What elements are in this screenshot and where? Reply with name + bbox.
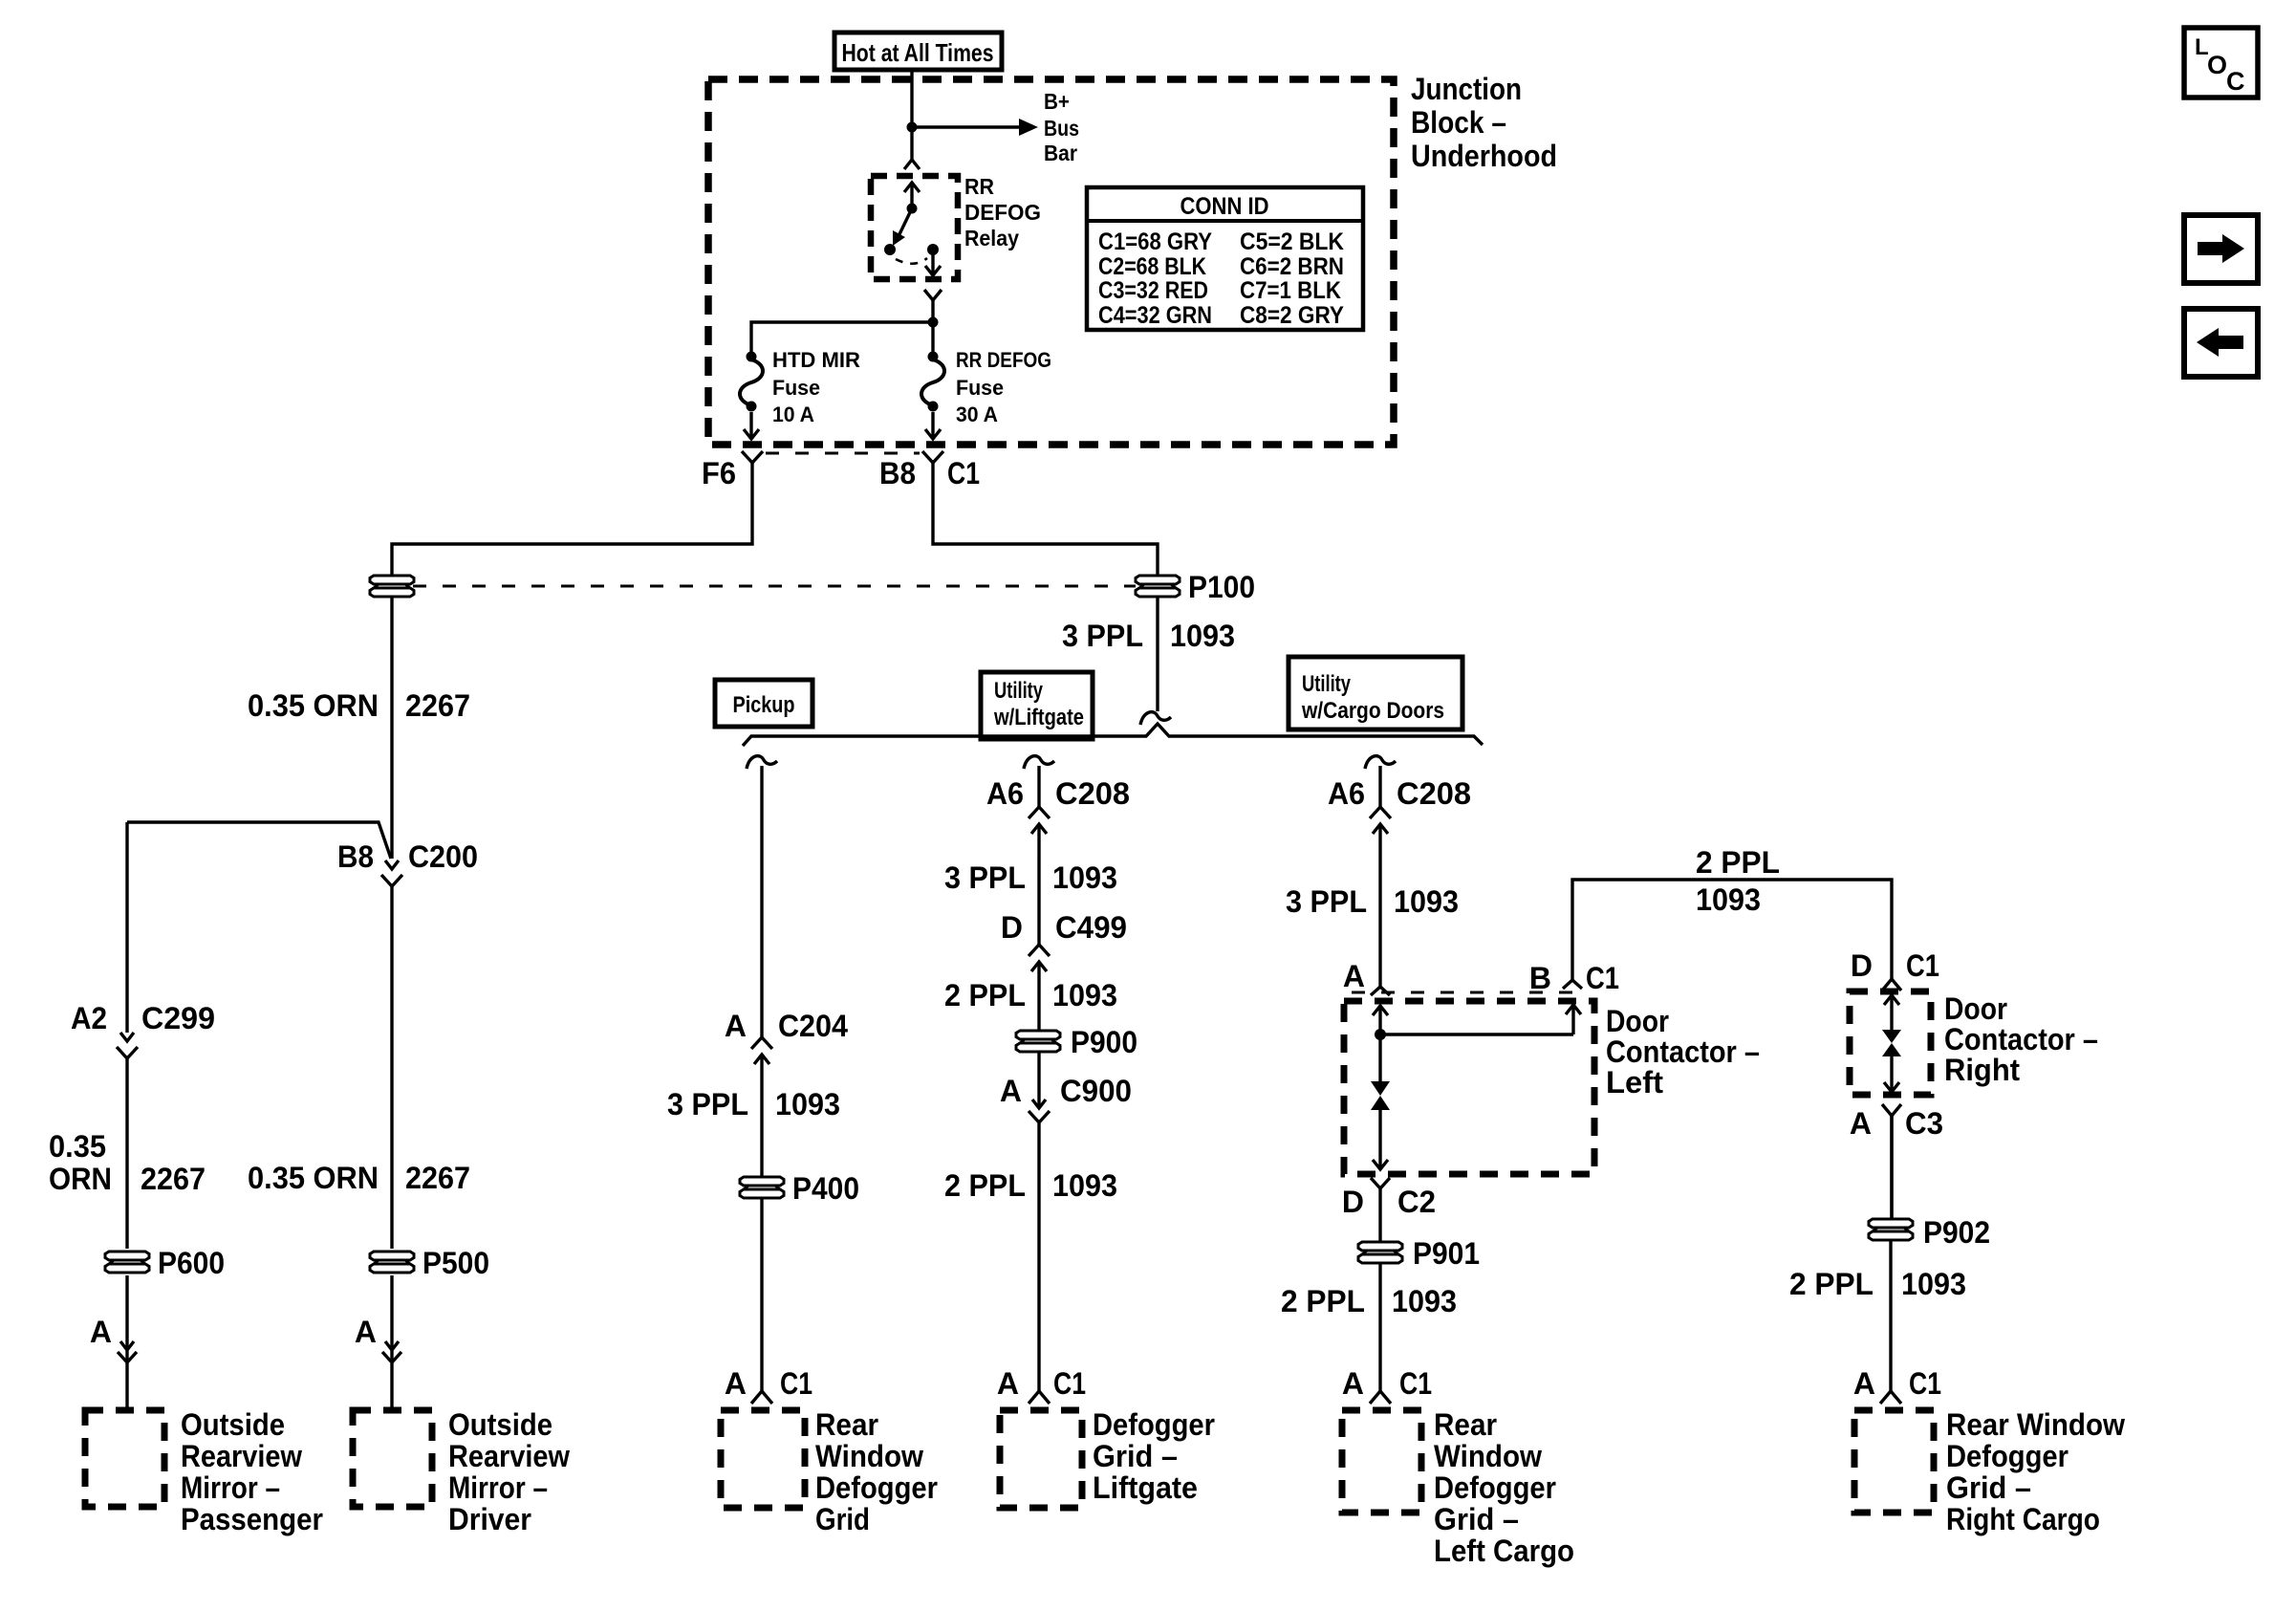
label 2 PPL 1093 right cargo	[1789, 1267, 1966, 1301]
wire passenger tee	[127, 822, 391, 859]
door contactor left dashed box	[1344, 1001, 1594, 1174]
label A2	[71, 1001, 107, 1035]
grommet P500	[370, 1252, 414, 1273]
connector F6 chevron	[742, 451, 763, 463]
icon box arrow right	[2184, 215, 2258, 283]
label RR DEFOG Relay	[964, 174, 1041, 250]
svg-text:Grid –: Grid –	[1093, 1439, 1178, 1473]
arrow down from RR DEFOG fuse	[925, 412, 941, 439]
label B8 at C200	[337, 839, 374, 874]
svg-text:C3: C3	[1905, 1106, 1943, 1141]
label A contactor left	[1343, 959, 1365, 993]
svg-text:C499: C499	[1055, 910, 1127, 945]
svg-text:1093: 1093	[1052, 1168, 1117, 1203]
svg-text:1093: 1093	[1696, 882, 1761, 917]
svg-text:Rear: Rear	[815, 1407, 878, 1442]
connector B8/C200 arrow and chevron	[381, 860, 402, 886]
label Door Contactor - Left	[1606, 1004, 1760, 1099]
label Rear Window Defogger Grid - Left Cargo	[1434, 1407, 1574, 1568]
svg-text:A: A	[1850, 1106, 1872, 1141]
label Rear Window Defogger Grid - Right Cargo	[1946, 1407, 2125, 1536]
connector D/C1 contactor right	[1882, 979, 1901, 991]
svg-text:2 PPL: 2 PPL	[1696, 845, 1780, 880]
svg-text:Grid –: Grid –	[1434, 1502, 1519, 1536]
B+ Bus Bar arrow	[912, 119, 1038, 136]
grommet P400	[740, 1177, 784, 1198]
svg-text:C204: C204	[778, 1009, 848, 1043]
svg-text:Contactor –: Contactor –	[1606, 1034, 1760, 1069]
label A bottom liftgate	[997, 1366, 1019, 1401]
svg-text:2 PPL: 2 PPL	[944, 978, 1026, 1012]
svg-text:C: C	[2226, 67, 2245, 96]
svg-text:C200: C200	[408, 839, 478, 874]
label B+ Bus Bar	[1044, 89, 1079, 165]
label C499	[1055, 910, 1127, 945]
label 3 PPL 1093 cargo	[1286, 884, 1459, 919]
svg-text:A: A	[90, 1315, 112, 1349]
contactor left arrow up to B terminal	[1566, 1005, 1581, 1034]
connector A/C900	[1029, 1090, 1050, 1122]
svg-text:C8=2 GRY: C8=2 GRY	[1240, 302, 1344, 329]
contactor right input arrow	[1884, 995, 1899, 1031]
svg-text:C3=32 RED: C3=32 RED	[1098, 277, 1208, 304]
contactor left hourglass contact	[1371, 1034, 1390, 1152]
power label box: Hot at All Times	[834, 33, 1002, 70]
svg-text:P901: P901	[1413, 1236, 1480, 1271]
label P901	[1413, 1236, 1480, 1271]
label C1 top	[947, 456, 980, 490]
svg-text:B8: B8	[879, 456, 916, 490]
svg-text:1093: 1093	[1170, 619, 1235, 653]
svg-text:2 PPL: 2 PPL	[1281, 1284, 1365, 1318]
contactor left input arrow	[1373, 1006, 1388, 1034]
svg-text:Grid: Grid	[815, 1502, 870, 1536]
hook cargo branch	[1365, 756, 1396, 769]
svg-text:A: A	[1342, 1366, 1364, 1401]
label P100	[1188, 570, 1255, 604]
label P902	[1923, 1215, 1990, 1250]
relay switch: common arrow up	[904, 183, 920, 208]
svg-text:Hot at All Times: Hot at All Times	[842, 38, 994, 67]
label C200	[408, 839, 478, 874]
svg-text:Window: Window	[1434, 1439, 1542, 1473]
connector D/C2 below contactor left	[1371, 1178, 1390, 1242]
svg-text:C4=32 GRN: C4=32 GRN	[1098, 302, 1212, 329]
label 2 PPL 1093 left cargo	[1281, 1284, 1457, 1318]
svg-text:3 PPL: 3 PPL	[944, 860, 1026, 895]
grommet P600	[105, 1252, 149, 1273]
svg-text:C1: C1	[1399, 1366, 1432, 1401]
connector A driver mirror	[382, 1341, 401, 1362]
svg-text:Left: Left	[1606, 1065, 1663, 1099]
wire C299 to P600	[125, 1058, 128, 1249]
svg-text:C208: C208	[1055, 776, 1130, 811]
component box Defogger Grid - Liftgate	[1000, 1410, 1082, 1508]
svg-text:30 A: 30 A	[956, 403, 998, 426]
svg-text:Rear Window: Rear Window	[1946, 1407, 2125, 1442]
svg-text:D: D	[1001, 910, 1023, 945]
svg-text:1093: 1093	[1901, 1267, 1966, 1301]
label D contactor right	[1851, 948, 1873, 983]
label A bottom pickup	[725, 1366, 747, 1401]
svg-text:w/Cargo Doors: w/Cargo Doors	[1301, 698, 1444, 724]
icon box LOC	[2184, 28, 2258, 98]
svg-text:Door: Door	[1944, 991, 2007, 1026]
contactor left link wire to B	[1380, 1033, 1573, 1035]
label D at C499	[1001, 910, 1023, 945]
door contactor right dashed box	[1850, 991, 1931, 1095]
svg-text:Fuse: Fuse	[956, 376, 1004, 400]
svg-text:A: A	[355, 1315, 377, 1349]
svg-text:D: D	[1342, 1185, 1364, 1219]
svg-text:ORN: ORN	[49, 1162, 112, 1196]
svg-text:Outside: Outside	[181, 1407, 285, 1442]
svg-text:P100: P100	[1188, 570, 1255, 604]
label Rear Window Defogger Grid	[815, 1407, 938, 1536]
svg-text:A: A	[1853, 1366, 1875, 1401]
svg-text:B8: B8	[337, 839, 374, 874]
thin dashed connector line contactor left	[1352, 991, 1579, 994]
wire P902 to right cargo grid	[1889, 1241, 1892, 1392]
wire pickup down to C204	[760, 766, 763, 1037]
component box Rear Window Defogger Grid - Left Cargo	[1342, 1410, 1421, 1513]
svg-text:Utility: Utility	[1302, 671, 1351, 697]
wire liftgate to C208	[1037, 766, 1040, 807]
label C1 bottom right cargo	[1909, 1366, 1941, 1401]
label 0.35 ORN 2267 passenger	[49, 1129, 206, 1196]
grommet P901	[1358, 1242, 1402, 1263]
svg-text:Pickup: Pickup	[733, 692, 795, 718]
RR DEFOG relay dashed box	[871, 176, 958, 279]
hook pickup branch	[747, 756, 777, 769]
grommet P902	[1869, 1219, 1913, 1240]
svg-text:C1: C1	[1586, 961, 1619, 995]
label A at C204	[725, 1009, 747, 1043]
svg-text:Window: Window	[815, 1439, 923, 1473]
connector A/C3 below contactor right	[1882, 1104, 1901, 1219]
label C1 contactor right	[1906, 948, 1939, 983]
svg-text:P500: P500	[422, 1246, 489, 1280]
svg-text:Contactor –: Contactor –	[1944, 1022, 2098, 1056]
svg-text:3 PPL: 3 PPL	[1062, 619, 1143, 653]
label A6 cargo	[1328, 776, 1365, 811]
connector D/C499 chevrons	[1029, 945, 1050, 991]
wire P400 to defogger grid	[760, 1199, 763, 1392]
wire driver continues	[390, 822, 393, 859]
svg-text:Door: Door	[1606, 1004, 1669, 1038]
fuse HTD MIR 10A	[740, 352, 763, 412]
connector A/C1 liftgate	[1029, 1391, 1050, 1404]
svg-text:3 PPL: 3 PPL	[667, 1087, 748, 1121]
svg-text:2 PPL: 2 PPL	[1789, 1267, 1874, 1301]
label B contactor	[1529, 961, 1551, 995]
options brace	[743, 724, 1483, 746]
svg-text:Utility: Utility	[994, 678, 1043, 704]
wire C208 to C499	[1037, 853, 1040, 945]
label Defogger Grid - Liftgate	[1093, 1407, 1215, 1505]
CONN ID rows left	[1098, 229, 1212, 329]
CONN ID rows right	[1240, 229, 1344, 329]
contactor right output arrow	[1884, 1056, 1899, 1092]
label C900	[1060, 1074, 1132, 1108]
icon box arrow left	[2184, 309, 2258, 377]
wire C1 down-right to P100	[933, 463, 1158, 575]
svg-text:Defogger: Defogger	[1434, 1470, 1556, 1505]
hook at bottom of P100 wire	[1140, 712, 1171, 725]
svg-text:1093: 1093	[1052, 860, 1117, 895]
junction block dashed box	[708, 79, 1394, 445]
svg-text:RR: RR	[964, 174, 994, 199]
wire main down from left grommet	[390, 598, 393, 822]
svg-text:Fuse: Fuse	[772, 376, 820, 400]
contactor right hourglass contact	[1882, 1030, 1901, 1056]
svg-text:Rear: Rear	[1434, 1407, 1497, 1442]
CONN ID title	[1180, 193, 1269, 220]
fuse RR DEFOG 30A	[921, 352, 944, 412]
label C2	[1397, 1185, 1436, 1219]
connector B/C1 contactor left	[1563, 980, 1582, 989]
thin dashed connector line C1	[766, 452, 920, 455]
wire 2 PPL from B up and right to door contactor right	[1572, 880, 1892, 980]
svg-text:DEFOG: DEFOG	[964, 200, 1041, 225]
label P600	[158, 1246, 225, 1280]
svg-text:C1: C1	[947, 456, 980, 490]
label P400	[792, 1171, 859, 1206]
connector A6/C208 cargo	[1370, 807, 1391, 853]
arrow down from HTD MIR fuse	[744, 412, 759, 439]
wire P900 to C900	[1037, 1053, 1040, 1090]
relay switch arm with arrowhead	[893, 208, 912, 246]
svg-text:0.35 ORN: 0.35 ORN	[248, 1161, 379, 1195]
wire P901 to left cargo grid	[1378, 1264, 1381, 1392]
label B8	[879, 456, 916, 490]
grommet left (unlabeled)	[370, 576, 414, 597]
svg-text:0.35: 0.35	[49, 1129, 106, 1164]
svg-text:F6: F6	[702, 456, 736, 490]
wire F6 down-left to left grommet	[392, 463, 752, 575]
option label box Utility w/Cargo Doors	[1289, 657, 1462, 729]
svg-text:P902: P902	[1923, 1215, 1990, 1250]
label A at C900	[1000, 1074, 1022, 1108]
svg-text:Driver: Driver	[448, 1502, 531, 1536]
connector A into door contactor left	[1371, 987, 1390, 995]
svg-text:0.35 ORN: 0.35 ORN	[248, 688, 379, 723]
label Junction Block - Underhood	[1411, 72, 1557, 173]
relay contact dot left	[884, 244, 896, 255]
label P500	[422, 1246, 489, 1280]
svg-text:HTD MIR: HTD MIR	[772, 348, 860, 372]
svg-text:B: B	[1529, 961, 1551, 995]
svg-text:Right: Right	[1944, 1053, 2020, 1087]
svg-text:Defogger: Defogger	[1093, 1407, 1215, 1442]
svg-text:Defogger: Defogger	[815, 1470, 938, 1505]
svg-text:A2: A2	[71, 1001, 107, 1035]
label A passenger	[90, 1315, 112, 1349]
label 2 PPL 1093 liftgate upper	[944, 978, 1117, 1012]
svg-text:w/Liftgate: w/Liftgate	[993, 705, 1084, 730]
svg-text:Right Cargo: Right Cargo	[1946, 1502, 2100, 1536]
wire relay to fuse bus	[931, 300, 934, 357]
grommet P900	[1016, 1031, 1060, 1052]
svg-text:1093: 1093	[1394, 884, 1459, 919]
label P900	[1071, 1025, 1137, 1059]
svg-text:Mirror –: Mirror –	[448, 1470, 548, 1505]
connector A/C1 right cargo	[1880, 1391, 1901, 1404]
connector A/C1 pickup	[751, 1391, 772, 1404]
wire C208 to contactor left	[1378, 853, 1381, 987]
label C204	[778, 1009, 848, 1043]
label 3 PPL 1093 liftgate	[944, 860, 1117, 895]
svg-text:C900: C900	[1060, 1074, 1132, 1108]
label C3	[1905, 1106, 1943, 1141]
contactor left junction dot	[1375, 1029, 1386, 1040]
svg-text:2 PPL: 2 PPL	[944, 1168, 1026, 1203]
svg-text:C7=1 BLK: C7=1 BLK	[1240, 277, 1341, 304]
label C1 bottom left cargo	[1399, 1366, 1432, 1401]
junction node dot on bus	[907, 122, 918, 133]
svg-text:1093: 1093	[1052, 978, 1117, 1012]
svg-text:2267: 2267	[405, 1161, 470, 1195]
svg-text:A: A	[1343, 959, 1365, 993]
svg-text:Bar: Bar	[1044, 141, 1077, 165]
label HTD MIR Fuse 10 A	[772, 348, 860, 426]
component box Outside Rearview Mirror - Passenger	[85, 1410, 164, 1507]
label F6	[702, 456, 736, 490]
wire passenger down	[125, 822, 128, 1008]
label C1 bottom pickup	[780, 1366, 812, 1401]
relay contact dot right	[927, 244, 939, 255]
svg-text:1093: 1093	[1392, 1284, 1457, 1318]
connector A/C1 left cargo	[1370, 1391, 1391, 1404]
svg-text:CONN ID: CONN ID	[1180, 193, 1269, 220]
svg-text:2267: 2267	[141, 1162, 206, 1196]
label A bottom left cargo	[1342, 1366, 1364, 1401]
wire C499 to P900	[1037, 991, 1040, 1031]
svg-text:C1: C1	[1909, 1366, 1941, 1401]
connector A6/C208 liftgate	[1029, 807, 1050, 853]
label 3 PPL 1093 at P100	[1062, 619, 1235, 653]
label 0.35 ORN 2267 upper	[248, 688, 470, 723]
svg-text:C208: C208	[1397, 776, 1471, 811]
svg-text:2267: 2267	[405, 688, 470, 723]
label A bottom right cargo	[1853, 1366, 1875, 1401]
svg-text:A: A	[725, 1009, 747, 1043]
svg-text:Mirror –: Mirror –	[181, 1470, 280, 1505]
junction dot fuse bus	[928, 317, 939, 328]
svg-text:D: D	[1851, 948, 1873, 983]
label A driver	[355, 1315, 377, 1349]
component box Rear Window Defogger Grid - Right Cargo	[1854, 1410, 1934, 1513]
label C299	[141, 1001, 215, 1035]
wire P600 to passenger mirror	[125, 1275, 128, 1410]
svg-text:C6=2 BRN: C6=2 BRN	[1240, 253, 1344, 280]
wire P500 to driver mirror	[390, 1275, 393, 1410]
label Door Contactor - Right	[1944, 991, 2098, 1087]
svg-text:C2: C2	[1397, 1185, 1436, 1219]
svg-text:Block –: Block –	[1411, 105, 1506, 140]
wire from Hot at All Times down to bus junction	[910, 70, 913, 161]
wire C3 to P902	[1890, 1116, 1893, 1219]
svg-text:Passenger: Passenger	[181, 1502, 323, 1536]
svg-text:A: A	[725, 1366, 747, 1401]
connector A passenger mirror	[118, 1341, 137, 1362]
svg-text:C1: C1	[780, 1366, 812, 1401]
component box Rear Window Defogger Grid	[721, 1410, 805, 1508]
label C208 liftgate	[1055, 776, 1130, 811]
svg-text:Left Cargo: Left Cargo	[1434, 1534, 1574, 1568]
CONN ID table box	[1087, 187, 1363, 330]
connector B8/C1 chevron	[922, 451, 943, 463]
relay output arrow down	[925, 250, 941, 275]
connector A/C204 chevrons	[751, 1037, 772, 1083]
hook liftgate branch	[1024, 756, 1054, 769]
svg-text:A: A	[997, 1366, 1019, 1401]
label Outside Rearview Mirror - Driver	[448, 1407, 570, 1536]
label C1 contactor left	[1586, 961, 1619, 995]
svg-text:1093: 1093	[775, 1087, 840, 1121]
label 3 PPL 1093 pickup	[667, 1087, 840, 1121]
thin dashed wire between grommets	[413, 585, 1136, 588]
svg-text:A6: A6	[1328, 776, 1365, 811]
svg-text:Relay: Relay	[964, 226, 1019, 250]
svg-text:3 PPL: 3 PPL	[1286, 884, 1367, 919]
svg-text:Junction: Junction	[1411, 72, 1522, 106]
option label box Pickup	[715, 680, 812, 727]
svg-text:Rearview: Rearview	[448, 1439, 570, 1473]
grommet P100	[1136, 576, 1180, 597]
relay pivot dot	[907, 204, 918, 214]
svg-text:C1: C1	[1906, 948, 1939, 983]
svg-text:C5=2 BLK: C5=2 BLK	[1240, 229, 1344, 255]
connector A2/C299	[117, 1008, 138, 1058]
label RR DEFOG Fuse 30 A	[956, 348, 1051, 426]
svg-text:RR DEFOG: RR DEFOG	[956, 348, 1051, 372]
label D at C2	[1342, 1185, 1364, 1219]
svg-text:Outside: Outside	[448, 1407, 552, 1442]
connector chevron below relay	[924, 290, 942, 300]
svg-text:O: O	[2207, 51, 2227, 79]
connector chevron into relay	[904, 160, 920, 169]
wire C900 to liftgate grid	[1037, 1122, 1040, 1392]
svg-text:C299: C299	[141, 1001, 215, 1035]
svg-text:Liftgate: Liftgate	[1093, 1470, 1198, 1505]
svg-text:C1=68 GRY: C1=68 GRY	[1098, 229, 1212, 255]
svg-text:Bus: Bus	[1044, 116, 1079, 141]
wire driver down to P500	[390, 886, 393, 1249]
label 2 PPL 1093 liftgate lower	[944, 1168, 1117, 1203]
svg-text:C1: C1	[1053, 1366, 1086, 1401]
wire fuse bus to HTD MIR fuse	[751, 322, 933, 357]
label 2 PPL 1093 top right	[1696, 845, 1780, 917]
svg-text:A6: A6	[986, 776, 1024, 811]
label A at C3	[1850, 1106, 1872, 1141]
label C208 cargo	[1397, 776, 1471, 811]
svg-text:B+: B+	[1044, 89, 1070, 114]
label 0.35 ORN 2267 driver	[248, 1161, 470, 1195]
relay throw dashed arc	[896, 258, 927, 264]
svg-text:P400: P400	[792, 1171, 859, 1206]
svg-text:Underhood: Underhood	[1411, 139, 1557, 173]
svg-text:P600: P600	[158, 1246, 225, 1280]
svg-text:A: A	[1000, 1074, 1022, 1108]
wire C204 to P400	[760, 1083, 763, 1176]
wire cargo to C208	[1378, 766, 1381, 807]
svg-text:P900: P900	[1071, 1025, 1137, 1059]
label A6 liftgate	[986, 776, 1024, 811]
svg-text:Defogger: Defogger	[1946, 1439, 2069, 1473]
label Outside Rearview Mirror - Passenger	[181, 1407, 323, 1536]
svg-text:10 A: 10 A	[772, 403, 814, 426]
